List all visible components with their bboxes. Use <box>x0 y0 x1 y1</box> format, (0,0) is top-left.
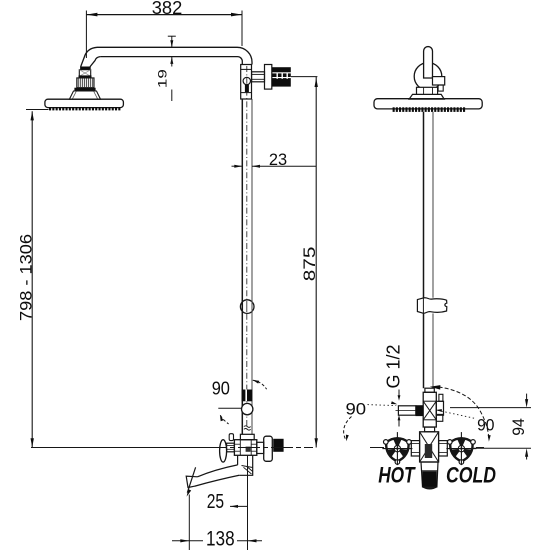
svg-text:G 1/2: G 1/2 <box>384 344 404 388</box>
svg-text:COLD: COLD <box>446 463 496 488</box>
svg-text:90: 90 <box>346 399 367 418</box>
svg-text:19: 19 <box>156 69 170 88</box>
svg-text:798 - 1306: 798 - 1306 <box>17 234 36 321</box>
svg-text:90: 90 <box>212 379 230 400</box>
svg-text:25: 25 <box>207 490 224 513</box>
svg-text:875: 875 <box>300 247 319 282</box>
svg-text:138: 138 <box>206 527 235 550</box>
svg-text:382: 382 <box>152 0 183 18</box>
svg-text:94: 94 <box>509 418 528 436</box>
svg-text:23: 23 <box>269 151 287 169</box>
svg-text:HOT: HOT <box>378 463 416 488</box>
svg-text:90: 90 <box>477 416 494 434</box>
